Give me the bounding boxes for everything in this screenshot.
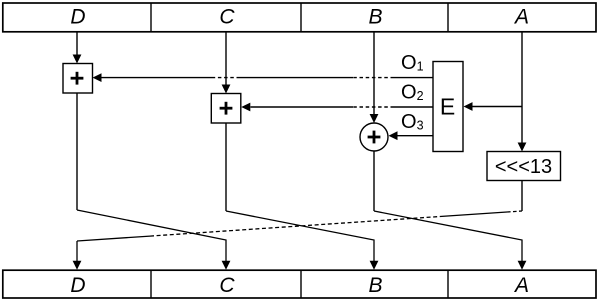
xor circle B [360,123,388,151]
register row bottom [3,270,596,298]
wire adder D down [76,93,78,210]
svg-text:D: D [70,274,85,297]
svg-text:<<<13: <<<13 [495,156,552,178]
function box E [433,62,463,152]
wire O2 from E to adder C [241,103,433,112]
wire xor B down [373,151,375,211]
wire O3 from E to xor B [389,131,434,140]
wire B down into xor [370,32,379,123]
wire D down into adder [73,32,82,64]
svg-text:C: C [219,6,235,29]
svg-text:A: A [513,274,529,297]
wire rotate A down [521,181,523,212]
wire O1 from E to adder D [93,73,434,82]
wire B to bottom A diagonal [374,211,526,270]
svg-text:D: D [70,6,85,29]
svg-text:C: C [219,274,235,297]
svg-text:A: A [513,6,529,29]
svg-text:B: B [368,274,382,297]
wire C to bottom B diagonal [226,211,378,270]
wire D to bottom C diagonal [77,210,230,270]
register row top [3,3,596,32]
svg-text:B: B [368,6,382,29]
wire A to bottom D long dashed [73,211,522,270]
wire adder C down [225,123,227,211]
adder box C [211,94,241,124]
wire A into E [464,102,523,111]
wire A down into rotate box [518,32,527,152]
wire C down into adder [222,32,231,94]
rotate box <<<13 [487,152,561,181]
svg-text:E: E [440,94,455,120]
adder box D [63,64,93,94]
